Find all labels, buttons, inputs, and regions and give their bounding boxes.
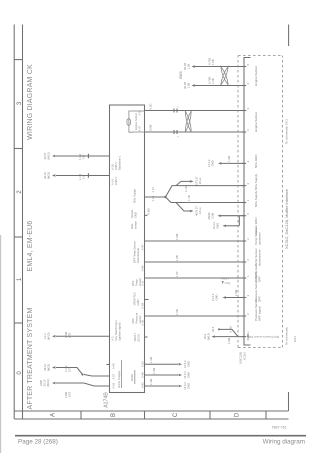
pin arrow B1 [247, 334, 249, 337]
engine subnet stub 2 [133, 110, 145, 112]
svg-text:CK1: CK1 [293, 336, 297, 342]
pin tick ems 1 [242, 85, 246, 87]
sensor gnd box pin tick [145, 214, 148, 216]
svg-text:A-84: A-84 [141, 265, 145, 271]
backbone wire A-16 [56, 155, 110, 157]
LIMP junction node [81, 373, 83, 375]
svg-text:1195 V: 1195 V [114, 176, 118, 185]
svg-text:EML4, EM-EU6: EML4, EM-EU6 [27, 220, 34, 271]
svg-text:12.3: 12.3 [43, 333, 47, 339]
svg-text:1.1M: 1.1M [78, 173, 82, 180]
pin tick pressure supply [242, 336, 246, 338]
svg-text:Backbone 1: Backbone 1 [118, 155, 122, 170]
pressure branch node [218, 328, 220, 330]
svg-text:GND: GND [136, 299, 140, 305]
connector bus line [244, 58, 251, 346]
dashed box bottom [282, 56, 284, 348]
svg-text:(W13): (W13) [47, 152, 51, 159]
svg-text:14.4.2: 14.4.2 [211, 293, 215, 301]
note down arrow [222, 281, 224, 284]
svg-text:A-47: A-47 [141, 244, 145, 250]
svg-text:GND: GND [216, 223, 220, 229]
svg-text:A-36: A-36 [139, 110, 142, 116]
svg-text:1.1R: 1.1R [151, 196, 155, 202]
svg-text:7987-761: 7987-761 [271, 426, 286, 430]
ECU Supply underline [121, 360, 123, 388]
svg-text:(G6C128): (G6C128) [239, 352, 243, 364]
sensor gnd wire b [221, 215, 244, 217]
LIMP pin stub 2 [80, 383, 110, 386]
frame bottom remnant right [288, 25, 290, 47]
svg-text:A-16: A-16 [111, 164, 115, 170]
pin tick nox gnd [242, 162, 246, 164]
frame top inner line [22, 25, 24, 420]
engine subnet wire 2 ticks [173, 109, 175, 113]
backbone wire A-14 [56, 175, 110, 177]
svg-text:1.1W: 1.1W [64, 365, 68, 372]
arrow GND wire 1 [179, 363, 182, 366]
twisted pair lens ems [221, 67, 228, 86]
svg-text:Downstream: Downstream [136, 247, 140, 263]
svg-text:1.1M: 1.1M [78, 153, 82, 160]
LIMP wire arrow branch 1 [56, 368, 83, 375]
svg-text:1.0M: 1.0M [227, 337, 231, 344]
arrow vref gnd [223, 296, 226, 299]
svg-text:NOx GND: NOx GND [254, 154, 258, 168]
svg-text:Wiring diagram: Wiring diagram [263, 439, 305, 446]
svg-text:GND: GND [187, 383, 191, 389]
svg-text:0.75B: 0.75B [208, 58, 212, 65]
dashed box left [238, 347, 283, 349]
ECU A174B box [110, 105, 145, 393]
svg-text:0.75B: 0.75B [208, 77, 212, 84]
svg-text:Temp: Temp [135, 279, 139, 286]
svg-text:PWL T: PWL T [221, 277, 230, 281]
pressure supply arrow wire [215, 336, 244, 338]
sensor gnd jog [238, 216, 240, 226]
svg-text:14.2.2: 14.2.2 [207, 159, 211, 167]
page left edge shadow [0, 235, 1, 453]
pin tick temp dpf [242, 277, 246, 279]
footer rule [15, 435, 306, 437]
arrow ems 2 [192, 65, 195, 68]
temp upstream wire [145, 240, 245, 242]
pin tick pressure gnd [242, 297, 246, 299]
pin tick subnet 2 [242, 110, 246, 112]
GND wire 2 [145, 374, 179, 376]
arrow backbone A-16 [52, 155, 55, 158]
svg-text:GND: GND [187, 372, 191, 378]
nox gnd wire [222, 162, 245, 164]
svg-text:Engine Subnet: Engine Subnet [134, 113, 138, 130]
svg-text:(W13): (W13) [207, 333, 211, 340]
arrow LIMP branch 1 [52, 366, 55, 369]
svg-text:GND: GND [215, 294, 219, 300]
svg-text:.18.xx: .18.xx [198, 207, 202, 215]
svg-text:0.5M: 0.5M [229, 326, 233, 333]
svg-text:A-8: A-8 [141, 281, 145, 286]
frame left inner line [14, 410, 288, 412]
svg-text:1.0R: 1.0R [175, 309, 179, 315]
pin tick nox supply 1 [242, 202, 246, 204]
svg-text:A-30: A-30 [141, 320, 145, 326]
svg-text:30.22: 30.22 [43, 172, 47, 179]
pin tick temp downstream [242, 261, 246, 263]
column tick 3/end [14, 59, 22, 61]
pressure signal wire [145, 315, 245, 317]
nox supply feed wire from pin [145, 196, 166, 198]
svg-text:1.4M: 1.4M [152, 367, 156, 374]
svg-text:A-35: A-35 [139, 126, 142, 132]
frame top outer line [13, 25, 15, 420]
svg-text:C: C [173, 412, 179, 417]
engine subnet bus bar [129, 111, 133, 132]
svg-text:NOx Supply: NOx Supply [254, 173, 258, 190]
pin tick pressure signal [242, 315, 246, 317]
arrow LIMP branch 2 [52, 382, 55, 385]
svg-text:(B1) Pressure sensor DPF: (B1) Pressure sensor DPF [247, 335, 279, 339]
row tick A/B [80, 411, 82, 419]
svg-text:Y17: Y17 [82, 174, 86, 179]
svg-text:downstream: downstream [258, 249, 262, 266]
svg-text:WIRING DIAGRAM CK: WIRING DIAGRAM CK [27, 64, 34, 140]
svg-text:XC312, DxC128, Muffler Interfa: XC312, DxC128, Muffler Interface [284, 188, 289, 249]
nox branch left [166, 197, 245, 203]
svg-text:GND: GND [211, 160, 215, 166]
svg-text:30.1B: 30.1B [183, 63, 187, 70]
twisted pair lens ems 2 [221, 67, 228, 86]
nox offpage branch 2 [176, 181, 190, 185]
svg-text:(ECU): (ECU) [137, 334, 141, 342]
svg-text:14.5.2: 14.5.2 [183, 382, 187, 390]
svg-text:1.1B: 1.1B [187, 195, 191, 201]
svg-text:1.4M: 1.4M [149, 356, 153, 363]
svg-text:G78: G78 [68, 366, 72, 372]
engine subnet oval [127, 119, 130, 125]
svg-text:AFTER TREATMENT SYSTEM: AFTER TREATMENT SYSTEM [27, 307, 34, 409]
svg-text:1.4M: 1.4M [64, 331, 68, 338]
svg-text:VREF/T1/2: VREF/T1/2 [133, 292, 137, 306]
svg-text:(W13): (W13) [47, 333, 51, 340]
svg-text:A-54: A-54 [141, 303, 145, 309]
nox junction node [164, 196, 166, 198]
svg-text:30.4: 30.4 [211, 326, 215, 332]
GND underline [134, 370, 136, 384]
arrow sensor gnd a [223, 225, 226, 228]
svg-text:44.13: 44.13 [43, 364, 47, 371]
column tick 2/3 [14, 148, 22, 150]
twisted pair lens engine subnet 2 [185, 111, 191, 132]
temp dpf wire [145, 277, 245, 279]
pin tick ems 2 [242, 66, 246, 68]
svg-text:ECU Supply: ECU Supply [117, 370, 121, 387]
svg-text:1.1Y: 1.1Y [151, 187, 155, 193]
sensor gnd wire a [226, 225, 239, 227]
pin tick subnet 1 [242, 131, 246, 133]
svg-text:1.4M: 1.4M [149, 378, 153, 385]
svg-text:GND: GND [134, 212, 138, 218]
svg-text:14.5.2: 14.5.2 [183, 371, 187, 379]
frame left outer line [14, 418, 288, 420]
svg-text:NOx Supply: NOx Supply [254, 190, 258, 207]
svg-text:16.4: 16.4 [203, 333, 207, 339]
engine subnet stub 1 [133, 131, 145, 133]
svg-text:A-48: A-48 [141, 372, 145, 378]
arrow nox offpage 2 [190, 180, 193, 183]
svg-text:Only: Only [225, 281, 231, 285]
svg-text:Sensor: Sensor [130, 210, 134, 219]
svg-text:NOx: NOx [130, 223, 134, 229]
svg-text:DPF: DPF [258, 276, 262, 282]
svg-text:GND: GND [187, 361, 191, 367]
vref gnd arrow wire to bus [226, 297, 244, 299]
svg-text:1.5B: 1.5B [211, 78, 215, 84]
backbone wire A-16 tick [87, 154, 89, 159]
svg-text:1.5B: 1.5B [211, 59, 215, 65]
svg-text:B: B [111, 413, 117, 417]
dashed box top [237, 56, 239, 348]
pin arrow B1 stub [247, 337, 249, 341]
svg-text:A-62: A-62 [141, 382, 145, 388]
engine subnet wire 1 [145, 131, 245, 133]
svg-text:1.0W: 1.0W [175, 233, 179, 240]
backbone wire A-14 tick [87, 173, 89, 178]
svg-text:A-40: A-40 [112, 363, 116, 369]
svg-text:1.4W: 1.4W [64, 392, 68, 399]
arrow sensor gnd b [218, 214, 221, 217]
svg-text:14.2.2: 14.2.2 [212, 222, 216, 230]
svg-text:DPF signal: DPF signal [258, 306, 262, 321]
svg-text:DPF: DPF [131, 280, 135, 286]
ems wire 1 [195, 85, 244, 87]
svg-text:1.4M: 1.4M [227, 155, 231, 162]
svg-text:VBAT1: VBAT1 [133, 333, 137, 342]
svg-text:4075.37: 4075.37 [195, 206, 199, 216]
arrow backbone A-14 [52, 174, 55, 177]
unconnected pin tick [107, 364, 110, 366]
arrow GND wire 2 [179, 374, 182, 377]
svg-text:Page 28 (268): Page 28 (268) [18, 439, 58, 446]
svg-text:1.1R: 1.1R [184, 186, 188, 192]
svg-text:1.0Y: 1.0Y [175, 271, 179, 277]
svg-text:D: D [235, 412, 241, 417]
svg-text:Engine Subnet: Engine Subnet [254, 112, 258, 132]
GND wire 3 [145, 385, 179, 387]
svg-text:NOx Supply: NOx Supply [133, 188, 137, 203]
engine subnet wire 1 ticks [173, 130, 175, 134]
svg-text:A174B: A174B [104, 392, 110, 408]
svg-text:XC312: XC312 [243, 351, 247, 360]
svg-text:1195 V: 1195 V [114, 161, 118, 170]
LIMP pin stub 1 [84, 375, 110, 377]
svg-text:1.5B: 1.5B [187, 83, 191, 89]
svg-text:0.5M: 0.5M [211, 212, 215, 219]
svg-text:1.0B: 1.0B [175, 255, 179, 261]
svg-text:Key Switch Input: Key Switch Input [114, 320, 118, 340]
svg-text:(ignition signal): (ignition signal) [118, 322, 122, 340]
svg-text:A 3: A 3 [111, 336, 115, 340]
frame bottom remnant left [288, 392, 290, 411]
svg-text:0.5M: 0.5M [147, 208, 151, 215]
svg-text:sensor: sensor [134, 221, 138, 229]
arrow GND wire 3 [179, 385, 182, 388]
svg-text:4075.37: 4075.37 [195, 176, 199, 186]
nox branch right [166, 186, 245, 197]
svg-text:EMS: EMS [179, 71, 183, 79]
svg-text:Sensor GND: Sensor GND [254, 217, 258, 235]
svg-text:0N3/F: 0N3/F [207, 212, 211, 220]
svg-text:A-57: A-57 [112, 373, 116, 379]
svg-text:30.1B: 30.1B [183, 82, 187, 89]
arrow nox gnd [218, 162, 221, 165]
temp downstream wire [145, 261, 245, 263]
row tick C/D [209, 411, 211, 419]
svg-text:A-53: A-53 [141, 361, 145, 367]
svg-text:A-53: A-53 [112, 382, 116, 388]
svg-text:30.13: 30.13 [43, 379, 47, 386]
svg-text:DPF: DPF [131, 318, 135, 324]
nox offpage branch 1 [176, 203, 190, 212]
svg-text:(W13): (W13) [47, 364, 51, 371]
svg-text:Y16: Y16 [82, 154, 86, 159]
svg-text:To schematic CK1: To schematic CK1 [285, 119, 289, 144]
svg-text:B-1: B-1 [246, 331, 250, 336]
twisted pair lens engine subnet [185, 111, 191, 132]
svg-text:(W13): (W13) [47, 172, 51, 179]
svg-text:G78: G78 [68, 392, 72, 398]
svg-text:DPF: DPF [258, 296, 262, 302]
pin tick temp upstream [242, 240, 246, 242]
ems wire 2 [195, 66, 244, 68]
svg-text:1.5B: 1.5B [187, 64, 191, 70]
svg-text:A-14: A-14 [111, 179, 115, 185]
svg-text:30.57: 30.57 [43, 152, 47, 159]
dashed box right [238, 55, 283, 57]
row tick D/end [265, 411, 267, 419]
arrow pressure supply [212, 335, 215, 338]
LIMP wire arrow branch 2 [56, 382, 80, 384]
engine subnet wire 2 [145, 110, 245, 112]
svg-text:(W13): (W13) [46, 379, 50, 386]
VBAT1 pin stub [145, 336, 148, 338]
svg-text:LIMP: LIMP [39, 380, 43, 386]
pressure branch stub [219, 329, 238, 336]
svg-text:.16.xx: .16.xx [198, 177, 202, 185]
pin tick sensor gnd [242, 215, 246, 217]
arrow key switch [52, 335, 55, 338]
pin tick nox supply 2 [242, 185, 246, 187]
svg-text:0.5W: 0.5W [149, 124, 153, 131]
vref gnd pin stub [145, 299, 149, 301]
svg-text:Pressure: Pressure [135, 312, 139, 323]
svg-text:0.5G: 0.5G [149, 103, 153, 109]
svg-text:DPF Temp Sensor: DPF Temp Sensor [133, 241, 137, 263]
arrow ems 1 [192, 84, 195, 87]
GND wire 1 [145, 363, 179, 365]
column tick 1/2 [14, 236, 22, 238]
key switch wire A-10 [56, 335, 110, 337]
svg-text:To schematic: To schematic [285, 326, 289, 345]
svg-text:14.5.2: 14.5.2 [183, 360, 187, 368]
row tick B/C [144, 411, 146, 419]
svg-text:A: A [51, 413, 57, 417]
svg-text:1.0W: 1.0W [234, 289, 238, 296]
svg-text:G78: G78 [68, 332, 72, 338]
column tick 0/1 [14, 322, 22, 324]
svg-text:GND: GND [130, 373, 134, 381]
arrow nox offpage 1 [190, 210, 193, 213]
svg-text:Engine Subnet: Engine Subnet [254, 66, 258, 86]
svg-text:upstream: upstream [258, 232, 262, 245]
